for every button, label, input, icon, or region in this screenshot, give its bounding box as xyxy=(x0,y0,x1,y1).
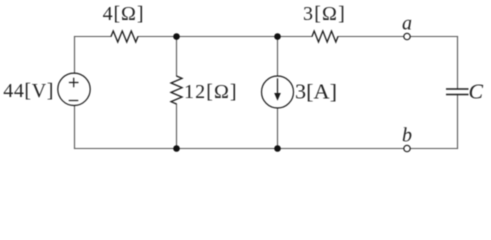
wire R3 to terminal a xyxy=(338,36,404,38)
wire top-left horizontal (source to R1) xyxy=(75,36,112,38)
current source I1 circle xyxy=(262,76,294,108)
svg-text:b: b xyxy=(402,125,412,147)
voltage source minus sign xyxy=(69,100,79,102)
wire current source top lead xyxy=(277,37,279,77)
current source arrowhead xyxy=(274,93,281,101)
junction node at 12-ohm bottom xyxy=(173,145,180,152)
wire left vertical upper (corner to source top) xyxy=(74,37,76,74)
wire bottom middle xyxy=(177,148,278,150)
current source arrow shaft xyxy=(277,78,279,94)
junction node at 12-ohm top xyxy=(173,33,180,40)
capacitor C bottom plate xyxy=(446,94,469,96)
wire right vertical lower (capacitor to corner) xyxy=(457,95,459,149)
wire node to node (top middle) xyxy=(177,36,278,38)
svg-text:C: C xyxy=(469,80,485,104)
svg-text:4[Ω]: 4[Ω] xyxy=(103,3,145,25)
svg-text:a: a xyxy=(402,13,412,35)
resistor R2 12-ohm vertical zigzag xyxy=(171,76,182,104)
wire bottom-left xyxy=(75,148,177,150)
svg-text:3[Ω]: 3[Ω] xyxy=(303,3,346,25)
wire right vertical upper (corner to capacitor) xyxy=(457,37,459,90)
wire terminal b to node xyxy=(278,148,404,150)
capacitor C top plate xyxy=(446,88,469,90)
wire left vertical lower (source bottom to corner) xyxy=(74,106,76,149)
wire 12-ohm bottom lead xyxy=(176,104,178,149)
junction node at current source top xyxy=(274,33,281,40)
terminal b open circle xyxy=(404,145,410,151)
voltage source V1 circle xyxy=(58,73,90,105)
svg-text:44[V]: 44[V] xyxy=(3,80,54,102)
wire bottom-right corner to terminal b xyxy=(410,148,457,150)
voltage source plus sign xyxy=(69,78,79,88)
terminal a open circle xyxy=(404,33,410,39)
svg-text:3[A]: 3[A] xyxy=(295,80,337,104)
wire node to R3 xyxy=(278,36,313,38)
wire terminal a to top-right corner xyxy=(410,36,457,38)
wire 12-ohm top lead xyxy=(176,37,178,77)
wire R1 to node at 12-ohm top xyxy=(138,36,177,38)
wire current source bottom lead xyxy=(277,108,279,149)
resistor R3 3-ohm zigzag xyxy=(312,31,338,42)
svg-text:12[Ω]: 12[Ω] xyxy=(184,81,238,103)
resistor R1 4-ohm zigzag xyxy=(111,31,138,42)
junction node at current source bottom xyxy=(274,145,281,152)
